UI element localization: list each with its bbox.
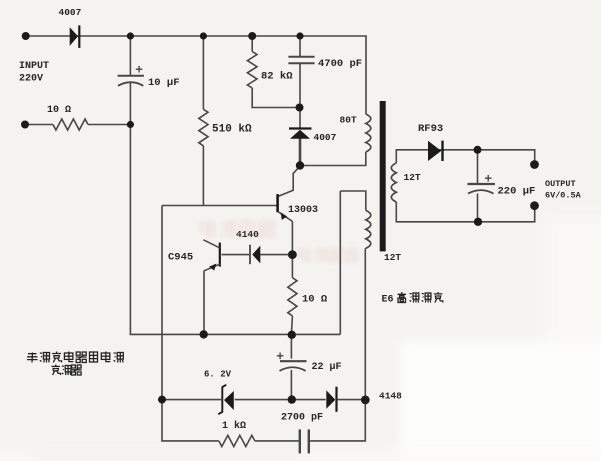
label 1 kOhm bbox=[222, 420, 246, 432]
transistor Q1 13003 bbox=[278, 194, 293, 221]
svg-text:4007: 4007 bbox=[314, 132, 337, 143]
node mid rail left junction bbox=[158, 396, 166, 404]
label 6.2V bbox=[204, 370, 232, 380]
label 4140 bbox=[236, 229, 259, 240]
label 4700 pF bbox=[318, 58, 362, 70]
label 4007 (clamp diode) bbox=[314, 132, 337, 143]
wire mid rail right bbox=[338, 399, 366, 401]
svg-text:6V/0.5A: 6V/0.5A bbox=[545, 191, 582, 201]
label title line 2 (bian huan qi) bbox=[52, 365, 82, 376]
resistor 10 ohm (emitter) bbox=[288, 278, 297, 316]
wire 4700pF top lead bbox=[299, 36, 301, 56]
svg-text:4007: 4007 bbox=[59, 7, 82, 18]
wire 220uF bottom lead bbox=[477, 194, 479, 222]
wire 10ohm to feedback line bbox=[291, 316, 292, 335]
diode D5 RF93 bbox=[428, 141, 443, 161]
svg-text:220V: 220V bbox=[19, 74, 43, 85]
node collector junction bbox=[296, 161, 304, 169]
label 13003 bbox=[288, 205, 318, 216]
wire 10uF top lead bbox=[129, 36, 131, 75]
svg-text:510 kΩ: 510 kΩ bbox=[212, 124, 252, 136]
capacitor 10uF electrolytic bbox=[118, 66, 144, 86]
label 510 kOhm bbox=[212, 124, 252, 136]
node top rail at 10uF bbox=[127, 32, 134, 39]
capacitor 22uF electrolytic bbox=[277, 353, 307, 371]
svg-text:E6: E6 bbox=[382, 295, 394, 306]
wire input lower lead bbox=[25, 124, 53, 126]
node mid rail at 22uF bbox=[288, 395, 296, 403]
svg-text:13003: 13003 bbox=[288, 205, 318, 216]
diode D4 4148 bbox=[326, 387, 336, 412]
wire left column and feedback bottom line bbox=[130, 83, 340, 334]
wire mid rail left bbox=[162, 399, 221, 401]
wire clamp column bbox=[299, 63, 301, 127]
svg-text:12T: 12T bbox=[384, 252, 401, 263]
svg-text:6. 2V: 6. 2V bbox=[204, 370, 232, 380]
wire 510k top lead bbox=[202, 36, 204, 109]
diode D2 4007 (clamp) bbox=[289, 129, 312, 139]
wire 82k bottom lead bbox=[252, 88, 299, 108]
svg-text:10 Ω: 10 Ω bbox=[47, 105, 71, 116]
label 4148 bbox=[379, 391, 402, 402]
node 82k/4700pF junction bbox=[296, 104, 304, 112]
wire secondary bottom bbox=[396, 202, 534, 222]
label 82 kOhm bbox=[261, 71, 293, 83]
svg-text:4700 pF: 4700 pF bbox=[318, 58, 362, 70]
svg-text:10 Ω: 10 Ω bbox=[302, 294, 328, 306]
node feedback line at 22uF bbox=[288, 331, 296, 339]
wire 4140 right lead bbox=[260, 254, 292, 256]
resistor 1k bbox=[219, 435, 255, 446]
label OUTPUT 6V/0.5A bbox=[545, 179, 582, 201]
label title line 1 (shou ji chong dian qi yong dian yuan) bbox=[27, 352, 123, 363]
node secondary top at 220uF bbox=[474, 146, 482, 154]
wire top rail bbox=[26, 36, 366, 114]
label 10 ohm (input) bbox=[47, 105, 71, 116]
wire base line bbox=[162, 205, 277, 207]
node top rail at 510k bbox=[200, 32, 207, 39]
transformer core bbox=[380, 101, 386, 251]
resistor 510k bbox=[199, 109, 208, 146]
wire C945 emitter lead bbox=[203, 271, 205, 335]
wire secondary top bbox=[396, 150, 534, 165]
svg-text:80T: 80T bbox=[340, 115, 357, 126]
wire 220uF top lead bbox=[477, 150, 479, 183]
capacitor 4700pF bbox=[288, 57, 314, 64]
diode D1 4007 (input) bbox=[70, 25, 80, 48]
resistor 82k bbox=[247, 52, 257, 89]
label 2700 pF bbox=[281, 413, 323, 424]
wire collector lead bbox=[278, 167, 299, 196]
wire bottom rail middle bbox=[255, 440, 299, 442]
wire feedback winding top bbox=[340, 191, 366, 210]
label RF93 bbox=[418, 123, 443, 135]
node secondary bottom at 220uF bbox=[474, 218, 482, 226]
wire lower lead to junction bbox=[88, 124, 131, 126]
label INPUT 220V bbox=[19, 61, 49, 85]
capacitor 2700pF bbox=[300, 429, 309, 453]
label 12T (secondary) bbox=[404, 172, 421, 183]
wire 22uF bottom lead bbox=[290, 370, 292, 400]
svg-text:C945: C945 bbox=[168, 252, 193, 264]
svg-text:OUTPUT: OUTPUT bbox=[545, 179, 576, 189]
node junction 10uF/10ohm bbox=[127, 121, 134, 128]
label 12T (feedback) bbox=[384, 252, 401, 263]
svg-text:220 µF: 220 µF bbox=[498, 186, 536, 198]
label 10uF bbox=[148, 77, 180, 89]
svg-text:82 kΩ: 82 kΩ bbox=[261, 71, 293, 83]
transformer secondary winding 12T bbox=[391, 163, 396, 202]
wire collector node to primary bbox=[300, 152, 366, 166]
transistor Q2 C945 bbox=[203, 240, 219, 271]
label 220uF bbox=[498, 186, 536, 198]
node mid rail right junction bbox=[361, 396, 370, 405]
capacitor 220uF electrolytic bbox=[468, 175, 495, 194]
wire left vertical to bottom rail bbox=[162, 206, 219, 441]
node output positive terminal bbox=[530, 160, 539, 169]
label 10 ohm (emitter) bbox=[302, 294, 328, 306]
svg-text:RF93: RF93 bbox=[418, 123, 443, 135]
wire feedback left vertical bbox=[339, 191, 341, 334]
node input top terminal bbox=[22, 32, 30, 40]
node feedback line at C945 emitter bbox=[200, 330, 208, 338]
wire 22uF top lead bbox=[290, 334, 292, 358]
wire clamp diode to collector node bbox=[299, 138, 302, 166]
label E6 core bbox=[382, 295, 394, 306]
svg-text:22 µF: 22 µF bbox=[312, 362, 342, 373]
svg-text:INPUT: INPUT bbox=[19, 61, 49, 72]
node top rail at 4700pF bbox=[296, 32, 303, 39]
label 22uF bbox=[312, 362, 342, 373]
transformer primary winding 80T bbox=[366, 114, 371, 152]
svg-text:10 µF: 10 µF bbox=[148, 77, 180, 89]
diode D3 4140 bbox=[250, 245, 260, 265]
node top rail at 82k bbox=[248, 32, 256, 40]
svg-text:12T: 12T bbox=[404, 172, 421, 183]
wire 13003 emitter lead bbox=[291, 221, 293, 277]
node output negative terminal bbox=[530, 201, 539, 210]
wire 82k top lead bbox=[251, 36, 253, 52]
node input bottom terminal bbox=[21, 121, 29, 129]
wire 510k bottom lead bbox=[202, 146, 204, 206]
svg-text:1 kΩ: 1 kΩ bbox=[222, 420, 246, 432]
label 80T bbox=[340, 115, 357, 126]
wire mid rail middle bbox=[235, 399, 326, 401]
svg-text:4148: 4148 bbox=[379, 391, 402, 402]
node emitter junction 13003 bbox=[288, 250, 297, 259]
label E6 high frequency core (gao pin ci xin) bbox=[398, 292, 443, 303]
transformer feedback winding 12T bbox=[366, 210, 371, 248]
svg-text:2700 pF: 2700 pF bbox=[281, 413, 323, 424]
label C945 bbox=[168, 252, 193, 264]
resistor 10 ohm (input) bbox=[53, 119, 88, 130]
label 4007 (input diode) bbox=[59, 7, 82, 18]
wire bottom rail right and right vertical bbox=[310, 248, 365, 441]
watermark (decorative pink) bbox=[201, 221, 358, 262]
wire 4140 left lead bbox=[222, 254, 250, 256]
diode ZD1 6.2V zener bbox=[218, 385, 234, 414]
